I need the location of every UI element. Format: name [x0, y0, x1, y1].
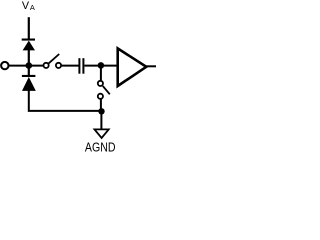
wire from D1 to input node	[28, 50, 30, 76]
net label VA	[22, 0, 35, 12]
svg-text:V: V	[22, 0, 30, 12]
node C junction dot	[98, 108, 104, 114]
switch S1 (series, open)	[44, 54, 62, 68]
ground symbol AGND	[95, 129, 109, 138]
diode D1 (clamp to VA, cathode up)	[22, 39, 35, 51]
wire S1 to capacitor C1	[61, 65, 78, 67]
output wire	[146, 65, 156, 67]
capacitor C1	[78, 58, 84, 73]
wire node B down to switch S2	[100, 65, 102, 80]
wire from VA down to diode D1	[28, 17, 30, 39]
diode D2 (clamp from below, cathode up to node)	[22, 75, 36, 91]
op-amp buffer U1	[118, 48, 147, 86]
node B junction dot	[98, 62, 105, 69]
svg-text:AGND: AGND	[85, 139, 116, 154]
node A junction dot	[26, 62, 33, 69]
input terminal circle	[1, 62, 8, 69]
wire from D2 down and right to AGND net	[29, 90, 102, 111]
svg-text:A: A	[30, 3, 35, 12]
wire node C to ground	[100, 111, 102, 129]
wire terminal to switch S1	[9, 65, 44, 67]
wire C1 to buffer input	[84, 65, 117, 67]
wire S2 to AGND node	[100, 99, 102, 112]
switch S2 (shunt to AGND, open)	[98, 81, 110, 99]
